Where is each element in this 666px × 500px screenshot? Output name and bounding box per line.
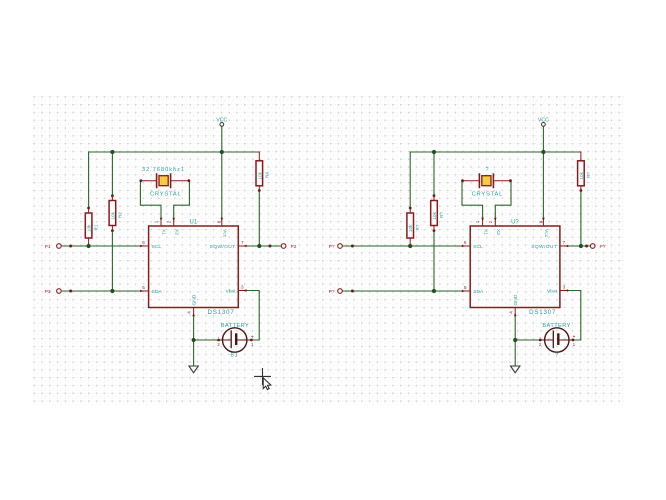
wire SQW/OUT net to P2 [245, 245, 281, 247]
cursor arrow pointer [263, 378, 271, 390]
svg-text:GND: GND [191, 294, 197, 305]
svg-text:R?: R? [586, 172, 591, 178]
wire second R? bottom to SDA (right) [433, 231, 435, 291]
connector P1 [45, 244, 72, 251]
junction SDA-R (right) [432, 289, 436, 293]
junction rail-VCC [220, 150, 224, 154]
pin 7 SQW/OUT (right) [531, 240, 568, 250]
crystal Q1 [140, 174, 191, 187]
svg-text:Vcc: Vcc [222, 229, 228, 238]
pin 1 X1 [154, 218, 167, 236]
resistor R? second (right) [431, 194, 444, 232]
svg-text:CRYSTAL: CRYSTAL [472, 192, 503, 198]
pin 7 SQW/OUT [210, 240, 247, 250]
wire battery minus to gnd [194, 339, 218, 341]
wire third R? bottom to SQW net (right) [580, 191, 582, 246]
svg-text:P3: P3 [45, 289, 51, 295]
svg-text:10k: 10k [432, 211, 437, 219]
pin 8 Vcc [217, 218, 228, 238]
svg-text:R2: R2 [117, 212, 122, 218]
mouse cursor [254, 368, 271, 390]
crystal X? (right) [461, 174, 512, 187]
svg-text:X2: X2 [173, 229, 179, 235]
wire VCC rail to R2 top [111, 152, 113, 196]
wire VCC top rail [89, 151, 260, 153]
svg-text:BATTERY: BATTERY [542, 323, 570, 329]
svg-text:SCL: SCL [473, 244, 483, 250]
svg-text:DS1307: DS1307 [529, 309, 556, 316]
pin 1 X1 (right) [475, 218, 488, 236]
wire VCC top rail (right) [410, 151, 581, 153]
svg-text:SQW/OUT: SQW/OUT [210, 244, 236, 250]
op IC U1 box DS1307 [149, 226, 239, 308]
svg-text:10k: 10k [87, 224, 92, 232]
pin 5 SDA [140, 285, 162, 295]
svg-text:VCC: VCC [538, 117, 549, 123]
power symbol VCC [216, 117, 227, 126]
battery B? (right) [539, 328, 576, 352]
ground symbol (right) [511, 366, 520, 373]
pin 6 SCL [140, 240, 161, 250]
pin 2 X2 [166, 218, 179, 236]
svg-text:X2: X2 [495, 229, 501, 235]
svg-text:B1: B1 [231, 353, 239, 359]
junction SQW-R4 [257, 244, 261, 248]
power symbol VCC (right) [538, 117, 549, 126]
resistor R2 [109, 194, 122, 232]
wire VCC rail to R1 top [88, 152, 90, 208]
wire SCL net P? to U? (right) [342, 245, 463, 247]
svg-text:P?: P? [600, 244, 606, 250]
wire VCC symbol to rail and Vcc pin (right) [542, 126, 544, 219]
svg-text:GND: GND [513, 294, 519, 305]
junction SDA-R2 [110, 289, 114, 293]
wire GND pin down (right) [514, 315, 516, 366]
wire VCC symbol to rail and Vcc pin [221, 126, 223, 219]
svg-text:10k: 10k [110, 211, 115, 219]
wire battery minus to gnd (right) [515, 339, 539, 341]
svg-text:8: 8 [217, 220, 222, 223]
connector P3 [45, 289, 72, 296]
svg-text:U1: U1 [190, 219, 198, 225]
svg-text:10k: 10k [408, 224, 413, 232]
wire SDA net P? to U? (right) [342, 290, 463, 292]
svg-text:R4: R4 [264, 172, 269, 178]
wire rail to second R? top (right) [433, 152, 435, 196]
resistor R? third (right) [578, 152, 591, 192]
pin 6 SCL (right) [462, 240, 483, 250]
svg-text:BATTERY: BATTERY [221, 323, 249, 329]
svg-text:?: ? [555, 353, 558, 359]
svg-text:Vcc: Vcc [543, 229, 549, 238]
svg-text:?: ? [486, 167, 489, 173]
wire SCL net P1 to U1 [61, 245, 141, 247]
pin 4 GND [187, 294, 198, 316]
IC U? box DS1307 (right) [470, 226, 560, 308]
svg-text:7: 7 [241, 240, 244, 245]
svg-text:10k: 10k [257, 171, 262, 179]
svg-text:5: 5 [464, 285, 467, 290]
connector P? SQW (right) [585, 244, 606, 251]
svg-text:3: 3 [241, 285, 244, 290]
svg-text:Vbat: Vbat [225, 288, 236, 294]
wire GND pin down [193, 315, 195, 366]
pin 2 X2 (right) [488, 218, 501, 236]
svg-text:X1: X1 [161, 229, 167, 235]
wire rail to R? top (right) [409, 152, 411, 208]
resistor R1 [85, 207, 98, 246]
wire R4 bottom to SQW net [258, 191, 260, 246]
svg-text:SDA: SDA [473, 289, 484, 295]
svg-text:5: 5 [142, 285, 145, 290]
junction GND-battery (right) [513, 338, 517, 342]
svg-text:P?: P? [329, 289, 335, 295]
svg-text:7: 7 [563, 240, 566, 245]
pin 4 GND (right) [508, 294, 519, 316]
connector P? SDA (right) [329, 289, 354, 296]
svg-text:2: 2 [488, 220, 493, 223]
svg-text:2: 2 [166, 220, 171, 223]
ground symbol [189, 366, 198, 373]
junction SCL-R (right) [408, 244, 412, 248]
svg-text:+: + [251, 334, 254, 340]
wire crystal X2 routing (right) [495, 181, 511, 219]
battery B1 [217, 328, 254, 352]
junction rail-R (right) [432, 150, 436, 154]
wire Vbat to battery plus [245, 291, 259, 341]
svg-text:10k: 10k [579, 171, 584, 179]
svg-text:P1: P1 [45, 244, 51, 250]
svg-text:R?: R? [415, 224, 420, 230]
connector P? SCL (right) [329, 244, 354, 251]
svg-text:Vbat: Vbat [547, 288, 558, 294]
wire SQW/OUT net to P? (right) [567, 245, 590, 247]
junction SCL-R1 [87, 244, 91, 248]
svg-text:CRYSTAL: CRYSTAL [150, 192, 181, 198]
svg-text:R?: R? [439, 212, 444, 218]
svg-text:+: + [572, 334, 575, 340]
svg-text:6: 6 [142, 240, 145, 245]
svg-text:P2: P2 [291, 244, 297, 250]
junction GND-battery [192, 338, 196, 342]
resistor R? first (right) [407, 207, 420, 246]
connector P2 [269, 244, 297, 251]
resistor R4 [256, 152, 269, 192]
junction rail-R2 [110, 150, 114, 154]
svg-text:VCC: VCC [216, 117, 227, 123]
cursor crosshair [254, 368, 271, 385]
svg-text:32.7680khz1: 32.7680khz1 [142, 167, 185, 173]
junction SQW-R (right) [579, 244, 583, 248]
junction rail-VCC (right) [541, 150, 545, 154]
svg-text:6: 6 [464, 240, 467, 245]
svg-text:1: 1 [475, 220, 480, 223]
svg-text:1: 1 [154, 220, 159, 223]
svg-text:4: 4 [187, 311, 192, 314]
svg-text:4: 4 [508, 311, 513, 314]
svg-text:U?: U? [511, 219, 519, 225]
wire crystal X2 routing [174, 181, 190, 219]
svg-text:P?: P? [329, 244, 335, 250]
wire crystal X1 routing [140, 181, 161, 219]
pin 3 Vbat (right) [547, 285, 568, 295]
pin 3 Vbat [225, 285, 246, 295]
svg-text:SDA: SDA [152, 289, 163, 295]
wire R2 bottom to SDA [111, 231, 113, 291]
svg-text:8: 8 [538, 220, 543, 223]
pin 5 SDA (right) [462, 285, 484, 295]
svg-text:DS1307: DS1307 [208, 309, 235, 316]
svg-text:X1: X1 [482, 229, 488, 235]
wire SDA net P3 to U1 [61, 290, 141, 292]
svg-text:R1: R1 [94, 224, 99, 230]
svg-text:3: 3 [563, 285, 566, 290]
svg-text:SQW/OUT: SQW/OUT [531, 244, 557, 250]
wire Vbat to battery plus (right) [567, 291, 581, 341]
pin 8 Vcc (right) [538, 218, 549, 238]
svg-text:SCL: SCL [152, 244, 162, 250]
wire crystal X1 routing (right) [462, 181, 483, 219]
